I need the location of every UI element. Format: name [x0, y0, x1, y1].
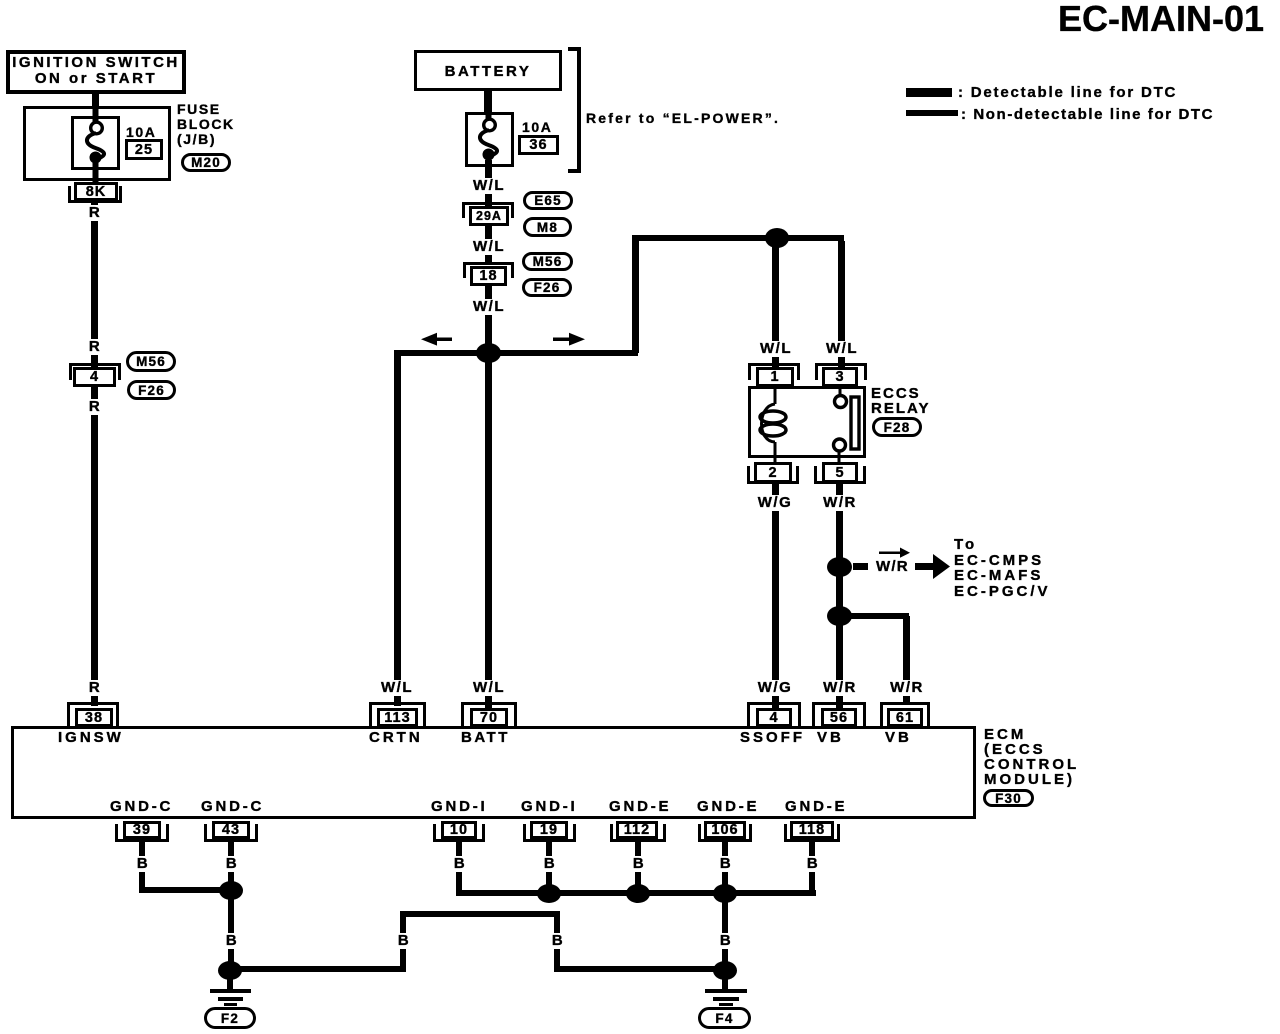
ECM pin 43 — [204, 824, 258, 842]
ECM box — [11, 726, 976, 819]
relay pin2 bracket — [747, 466, 799, 484]
wire horizontal split — [394, 350, 638, 356]
junction node 19 — [537, 884, 561, 903]
connector F26 oval — [127, 380, 176, 400]
fuse 25 box — [71, 116, 120, 170]
relay pin5 bracket — [814, 466, 866, 484]
label R 3 — [87, 399, 103, 415]
wire bottom horizontal right — [554, 966, 729, 972]
ignition switch box — [6, 50, 186, 94]
wire up branch vertical — [632, 238, 639, 353]
ECM pin 118 — [784, 824, 840, 842]
relay pin3 bracket — [815, 363, 867, 380]
thick arrow to EC-CMPS — [915, 554, 951, 579]
connector F30 oval — [983, 789, 1034, 807]
label B left mid — [224, 933, 240, 949]
label W/L 3 — [471, 299, 507, 315]
To EC-CMPS EC-MAFS EC-PGC/V text — [954, 537, 1051, 599]
fuse 25 value 10A — [126, 124, 156, 140]
label B 112 — [631, 856, 647, 872]
ECM pin 19 — [523, 824, 576, 842]
label B 106 — [718, 856, 734, 872]
legend detectable bar — [906, 88, 952, 97]
relay pin1 bracket — [748, 363, 800, 380]
pin name SSOFF — [740, 729, 805, 746]
connector F4 oval — [698, 1007, 751, 1029]
pin name GND-I 10 — [431, 798, 488, 815]
wire to relay pin3 — [838, 241, 845, 368]
label B 106 mid — [718, 933, 734, 949]
label W/R 3 — [888, 680, 926, 696]
bus right horizontal — [456, 890, 816, 896]
label B 43 — [224, 856, 240, 872]
ECM pin 4 — [747, 702, 801, 727]
connector 29A bracket — [462, 202, 514, 218]
label W/L relay3 — [824, 341, 860, 357]
legend non-detectable text — [961, 106, 1214, 123]
wire VB branch horizontal — [839, 613, 909, 619]
label B jog left — [396, 933, 412, 949]
flow arrows at split — [410, 330, 595, 350]
connector 4 box — [73, 367, 116, 387]
wire to relay pin1 — [772, 238, 779, 368]
wire CRTN vertical — [394, 353, 401, 706]
connector 18 bracket — [463, 262, 514, 278]
connector E65 oval — [523, 191, 573, 210]
wire VB branch vertical — [903, 616, 910, 704]
wire pin43 down — [228, 842, 234, 974]
ECM pin 56 — [812, 702, 866, 727]
junction node 112 — [626, 884, 650, 903]
junction node W/R arrow — [827, 557, 852, 577]
fuse block J/B box — [23, 106, 171, 181]
fuse block label — [177, 102, 235, 147]
junction node 106 — [713, 884, 737, 903]
label W/L relay1 — [758, 341, 794, 357]
pin name GND-C 39 — [110, 798, 173, 815]
wire W/R relay to ECM — [836, 483, 843, 708]
pin name IGNSW — [58, 729, 124, 746]
wire R ignition column — [91, 203, 98, 706]
fuse 36 value 10A — [522, 119, 552, 135]
wire pin39 stub — [139, 842, 145, 893]
fuse number 36 box — [518, 135, 559, 155]
pin name BATT — [461, 729, 510, 746]
connector F2 oval — [204, 1007, 256, 1029]
label W/L CRTN — [379, 680, 415, 696]
title EC-MAIN-01 — [1058, 0, 1264, 40]
wire F4 stub — [722, 974, 728, 991]
relay coil — [755, 386, 795, 462]
label W/L 2 — [471, 239, 507, 255]
label B 39 — [135, 856, 151, 872]
wire W/L battery column to ECM — [485, 286, 492, 708]
wire jog down right — [554, 914, 560, 972]
pin name GND-C 43 — [201, 798, 264, 815]
wire pin19 stub — [546, 842, 552, 894]
relay contact — [820, 386, 866, 462]
wire pin10 stub — [456, 842, 462, 894]
connector 29A box — [469, 206, 509, 226]
ECM pin 106 — [698, 824, 752, 842]
wire battery to fuse — [484, 89, 492, 114]
label W/R arrow — [876, 558, 909, 575]
fuse symbol 25 — [75, 104, 116, 184]
wire top horizontal — [632, 235, 844, 241]
relay body ECCS relay — [748, 386, 866, 458]
pin name GND-E 118 — [785, 798, 847, 815]
relay pin1 box — [756, 367, 794, 387]
label W/L 1 — [471, 178, 507, 194]
connector M8 oval — [523, 217, 572, 237]
label R 1 — [87, 205, 103, 221]
pin name CRTN — [369, 729, 423, 746]
junction node battery split — [476, 343, 501, 363]
label B jog right — [550, 933, 566, 949]
wire W/L between 29A and 18 — [485, 226, 492, 262]
pin name GND-E 106 — [697, 798, 759, 815]
junction node VB branch — [827, 606, 852, 626]
legend non-detectable bar — [906, 110, 958, 116]
wire ignition to fuse block — [92, 92, 99, 108]
refer to EL-POWER text — [586, 110, 780, 126]
ECM pin 70 — [461, 702, 517, 727]
ignition switch text — [12, 55, 180, 87]
label W/R 1 — [821, 495, 859, 511]
battery text — [445, 63, 532, 80]
pin name GND-I 19 — [521, 798, 578, 815]
relay pin2 box — [754, 462, 792, 483]
legend detectable text — [958, 84, 1177, 101]
fuse 36 box — [465, 112, 514, 167]
pin name GND-E 112 — [609, 798, 671, 815]
ECM pin 61 — [880, 702, 930, 727]
wire elbow 39 — [139, 887, 234, 893]
wire pin106 down — [722, 842, 728, 972]
label W/G 1 — [756, 495, 795, 511]
connector 8K box — [74, 182, 118, 201]
connector 4 bracket — [69, 363, 121, 380]
ECM pin 113 — [369, 702, 426, 727]
junction node left bus — [219, 881, 243, 900]
connector 18 box — [470, 266, 507, 286]
label W/L 4 — [471, 680, 507, 696]
wire pin118 stub — [809, 842, 815, 894]
wire pin112 stub — [635, 842, 641, 894]
wire W/G relay to ECM — [772, 483, 779, 708]
label B 19 — [542, 856, 558, 872]
wire jog horizontal — [400, 911, 560, 917]
connector M56 oval — [126, 351, 176, 372]
wire W/L battery column upper — [485, 160, 492, 207]
label R 4 — [87, 680, 103, 696]
junction node F2 — [218, 961, 242, 980]
relay pin5 box — [822, 462, 858, 483]
label R 2 — [87, 339, 103, 355]
ECM pin 112 — [610, 824, 666, 842]
wire jog up left — [400, 911, 406, 972]
label B 118 — [805, 856, 821, 872]
label W/R 2 — [821, 680, 859, 696]
small arrow above W/R — [879, 547, 911, 558]
connector F28 oval — [872, 417, 922, 437]
label B 10 — [452, 856, 468, 872]
pin name VB 61 — [885, 729, 912, 746]
refer bracket — [577, 47, 581, 173]
label W/G 2 — [756, 680, 795, 696]
junction node relay top — [765, 228, 789, 248]
pin name VB 56 — [817, 729, 844, 746]
connector F26 oval 2 — [522, 278, 572, 297]
dash W/R — [853, 563, 868, 570]
connector 8K bracket — [68, 186, 122, 203]
ECM pin 39 — [115, 824, 169, 842]
ECM pin 10 — [433, 824, 485, 842]
ECM label text — [984, 727, 1079, 787]
wire bottom horizontal left — [230, 966, 406, 972]
wire F2 stub — [227, 974, 233, 992]
connector M20 oval — [181, 153, 231, 172]
junction node F4 — [713, 961, 737, 980]
fuse symbol 36 — [468, 101, 509, 181]
ground F4 symbol — [705, 989, 747, 993]
ECCS RELAY text — [871, 386, 930, 416]
connector M56 oval 2 — [522, 252, 573, 271]
relay pin3 box — [822, 367, 858, 387]
ECM pin 38 — [67, 702, 119, 727]
fuse number 25 box — [125, 139, 163, 160]
ground F2 symbol — [210, 989, 251, 993]
battery box — [414, 50, 562, 91]
